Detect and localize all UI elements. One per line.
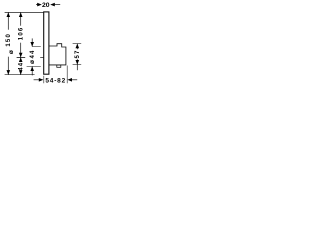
svg-text:20: 20 [42, 2, 50, 9]
svg-text:57: 57 [75, 49, 81, 58]
dimension 106: label mask [18, 26, 24, 43]
dimension 44: top arrow [19, 57, 23, 62]
dimension ø44: upper arrow (points down to knob top) [30, 42, 34, 47]
dimension 57: line [76, 44, 78, 71]
bottom tab on knob [57, 65, 61, 67]
dimension 54-82: right tail [72, 79, 78, 81]
svg-text:150: 150 [6, 33, 12, 47]
dimension ø150: top arrow [7, 12, 11, 17]
dimension 54-82: left extension line [43, 76, 45, 83]
knob body, flange and grip outline [49, 44, 66, 65]
extension line: bottom reference (plate bottom) [5, 74, 35, 76]
dimension 20: left tail [36, 4, 38, 6]
dimension 54-82: right arrow [67, 78, 72, 82]
svg-text:44: 44 [19, 62, 25, 71]
dimension 44: label mask [18, 62, 24, 70]
dimension ø150: line [7, 12, 9, 74]
wall plate (side view) [44, 12, 49, 74]
dimension 44: bottom arrow [19, 70, 23, 75]
dimension 44: line [20, 57, 22, 74]
dimension 54-82: right extension line [66, 66, 68, 84]
dimension 57: top tick [73, 43, 82, 45]
dimension 20: right tail [54, 4, 60, 6]
dimension 57: label mask [74, 49, 80, 59]
extension line: knob top [32, 46, 41, 48]
dimension ø150: label mask [5, 30, 11, 57]
extension line: top reference (plate top) [5, 11, 44, 13]
dimension 106: line [20, 12, 22, 57]
dimension 20: right arrow [50, 3, 55, 7]
extension line: valve centerline tick left [17, 56, 26, 58]
dimension 57: bottom tick [73, 64, 82, 66]
dimension 106: bottom arrow [19, 53, 23, 58]
extension line: valve centerline tick right [40, 56, 44, 58]
svg-text:106: 106 [19, 27, 25, 41]
dimension 20: left arrow [37, 3, 42, 7]
dimension ø150: bottom arrow [7, 70, 11, 75]
svg-text:54-82: 54-82 [45, 77, 66, 84]
dimension 57: top arrow [76, 44, 80, 49]
dimension 54-82: left arrow [39, 78, 44, 82]
dimension ø44: upper lead line [31, 38, 33, 46]
svg-text:ø: ø [8, 50, 15, 54]
extension line: knob bottom [27, 65, 41, 67]
dimension ø44: lower arrow (points up to knob bottom) [30, 66, 34, 71]
dimension 57: bottom arrow [76, 60, 80, 65]
dimension ø44: lower lead line [31, 66, 33, 75]
svg-text:44: 44 [30, 49, 36, 58]
svg-text:ø: ø [29, 60, 36, 64]
dimension 106: top arrow [19, 12, 23, 17]
dimension 54-82: left tail [34, 79, 40, 81]
